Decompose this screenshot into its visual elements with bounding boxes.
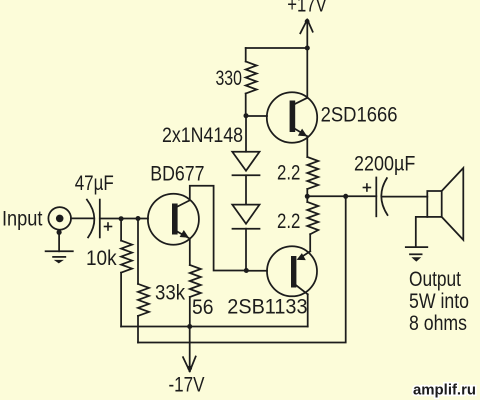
wire node B to diode D1 [245, 116, 247, 152]
wire connector to gnd [58, 232, 60, 251]
svg-text:Output: Output [409, 268, 461, 291]
resistor 330 [246, 48, 257, 116]
resistor 56 [190, 239, 201, 327]
wire output row node D to C2 [307, 195, 376, 197]
wire emitter 2SD1666 to 2.2a [306, 136, 308, 157]
diode D2 1N4148 [232, 205, 259, 229]
svg-text:Input: Input [2, 207, 43, 230]
node G junction dot [136, 216, 141, 221]
speaker [427, 168, 463, 240]
svg-text:5W into: 5W into [409, 290, 469, 313]
wire node C to base 2SB1133 [246, 270, 267, 272]
transistor Q1 2SD1666 NPN [267, 92, 317, 142]
node D junction dot [305, 194, 310, 199]
svg-text:2.2: 2.2 [277, 210, 300, 233]
wire rail2 feedback [138, 196, 346, 342]
wire top rail to 330 [246, 47, 308, 49]
capacitor C1 47uF [87, 200, 112, 238]
wire D1 to D2 [245, 175, 247, 204]
wire node B to base 2SD1666 [246, 115, 267, 117]
wire D2 to node C [245, 229, 247, 271]
power arrow -17V [183, 327, 196, 372]
power arrow +17V [300, 19, 312, 48]
svg-text:+17V: +17V [287, 0, 326, 17]
resistor 2.2a [307, 157, 318, 189]
wire 2.2a to node D [306, 189, 308, 196]
svg-text:2SD1666: 2SD1666 [321, 104, 398, 127]
svg-text:33k: 33k [155, 282, 185, 305]
svg-text:-17V: -17V [169, 374, 205, 397]
wire speaker to gnd [416, 217, 428, 247]
svg-text:BD677: BD677 [150, 162, 204, 185]
diode D1 1N4148 [232, 152, 259, 176]
svg-text:2SB1133: 2SB1133 [227, 296, 307, 319]
ground speaker [406, 247, 428, 262]
node A junction dot top rail [305, 46, 310, 51]
svg-text:330: 330 [216, 67, 242, 90]
transistor Q3 2SB1133 PNP [267, 246, 317, 296]
svg-text:47µF: 47µF [75, 172, 114, 195]
node C junction dot [244, 268, 249, 273]
wire collector 2SD1666 [306, 48, 308, 98]
resistor 33k [138, 219, 149, 343]
svg-text:8 ohms: 8 ohms [409, 312, 467, 335]
wire rail1 -17V [121, 326, 308, 328]
node F junction dot [119, 216, 124, 221]
capacitor C2 2200uF [363, 178, 387, 217]
wire collector 2SB1133 to rail1 [307, 294, 309, 326]
node B junction dot [244, 113, 249, 118]
node H junction dot [187, 324, 192, 329]
resistor 2.2b [307, 196, 318, 251]
wire connector to C1 [71, 217, 93, 219]
svg-text:amplif.ru: amplif.ru [413, 382, 476, 398]
svg-text:56: 56 [192, 296, 214, 319]
ground input [46, 251, 73, 263]
svg-text:10k: 10k [86, 247, 117, 270]
resistor 10k [121, 219, 132, 327]
wire collector BD677 route to node C [190, 186, 247, 271]
wire C1 to base BD677 [100, 218, 148, 220]
svg-text:2x1N4148: 2x1N4148 [162, 124, 243, 147]
node E junction dot [343, 194, 348, 199]
svg-text:2.2: 2.2 [277, 162, 300, 185]
wire C2 to speaker [382, 196, 428, 198]
transistor Q2 BD677 NPN [148, 194, 199, 245]
svg-text:2200µF: 2200µF [354, 153, 415, 176]
input connector [48, 207, 71, 235]
